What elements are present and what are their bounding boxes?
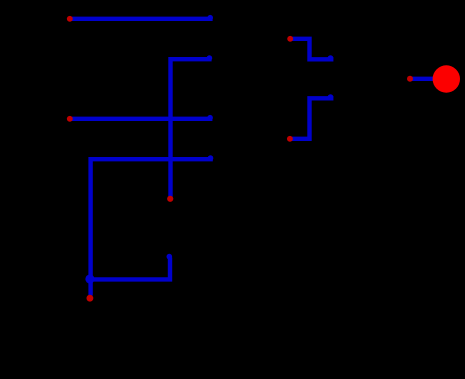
gate U4 output pin [407,76,413,82]
input pin C [87,295,94,302]
junction node C [85,274,94,283]
wire gate U4 output to lamp DS1 [412,77,434,81]
gate U1 output pin [287,36,293,42]
wire input B to gate U2 pin 1 [70,115,213,121]
wire gate U2 output to gate U4 pin 2 [290,94,334,139]
wire junction to NOT gate U3 input [91,254,173,280]
input pin A [67,16,73,22]
gate U2 output pin [287,136,293,142]
lamp DS1 [433,65,460,92]
wire NOT gate U3 output to gate U1 pin 2 [171,55,213,196]
wire input A to gate U1 pin 1 [70,15,213,21]
wire input C to gate U2 pin 2 [91,155,214,295]
input pin B [67,116,73,122]
NOT gate U3 output pin [167,196,173,202]
wire gate U1 output to gate U4 pin 1 [290,39,333,61]
